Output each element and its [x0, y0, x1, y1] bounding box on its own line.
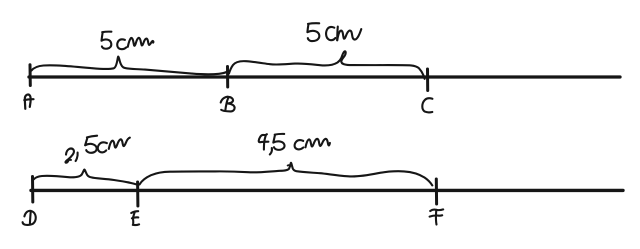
letter B: [221, 97, 235, 112]
label 7,5 cm : comma: [270, 148, 272, 154]
label 5 cm (AB) : letter m: [128, 38, 154, 47]
tick B: [226, 67, 229, 88]
tick A: [29, 65, 32, 86]
label 5 cm (BC) : letter c: [326, 27, 335, 40]
label 2,5 cm : digit 2: [65, 149, 73, 163]
brace AB (5 cm): [32, 57, 227, 75]
label 7,5 cm : digit 5: [273, 134, 284, 150]
brace BC (5 cm): [229, 51, 425, 79]
letter E: [131, 211, 139, 225]
label 7,5 cm : letter c: [295, 140, 304, 149]
tick E: [136, 182, 139, 206]
tick F: [435, 179, 438, 204]
top number line: [29, 75, 620, 78]
label 5 cm (AB) : digit 5: [102, 32, 112, 49]
label 5 cm (AB) : letter c: [117, 39, 126, 49]
label 5 cm (BC) : letter m: [337, 27, 361, 41]
tick C: [426, 69, 429, 91]
letter A: [24, 95, 33, 109]
letter D: [23, 211, 36, 225]
brace DE (2,5 cm): [34, 170, 137, 185]
letter F: [430, 209, 444, 224]
label 2,5 cm : comma: [76, 153, 78, 161]
label 2,5 cm : letter c: [98, 142, 107, 152]
brace EF (7,5 cm): [140, 163, 433, 186]
label 7,5 cm : digit 7: [259, 134, 269, 149]
label 5 cm (BC) : digit 5: [307, 23, 319, 41]
tick D: [31, 177, 34, 203]
label 7,5 cm : letter m: [306, 139, 330, 147]
letter C: [422, 98, 432, 112]
label 2,5 cm : letter m: [109, 138, 130, 149]
bottom number line: [31, 189, 623, 192]
label 2,5 cm : digit 5: [85, 136, 97, 153]
